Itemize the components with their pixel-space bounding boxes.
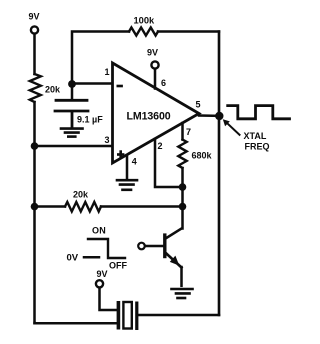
- plus sign non-inverting input: [117, 150, 124, 158]
- waveform square wave output: [228, 106, 290, 119]
- pin 4 wire: [126, 155, 129, 180]
- svg-text:9V: 9V: [147, 48, 158, 58]
- svg-text:100k: 100k: [134, 16, 156, 26]
- transistor Q1 base terminal: [138, 243, 145, 250]
- arrow XTAL FREQ pointer: [223, 119, 240, 135]
- terminal 9V top-left: [31, 26, 38, 33]
- svg-text:4: 4: [132, 156, 137, 166]
- wire base: [145, 245, 163, 248]
- node junction pin1 / capacitor: [68, 80, 76, 88]
- wire pin 3 input: [35, 145, 113, 148]
- wire emitter down: [180, 267, 183, 286]
- svg-text:OFF: OFF: [109, 261, 127, 271]
- node junction pin2 / 680k: [179, 183, 187, 191]
- svg-text:XTAL: XTAL: [244, 131, 267, 141]
- wire bottom rail to crystal: [35, 322, 118, 325]
- svg-text:5: 5: [195, 99, 200, 109]
- svg-text:0V: 0V: [67, 253, 79, 264]
- node junction 20k wire / 680k: [179, 203, 187, 211]
- svg-text:FREQ: FREQ: [245, 141, 270, 151]
- svg-text:680k: 680k: [192, 151, 213, 161]
- wire 9V switch to crystal: [100, 288, 117, 310]
- svg-text:9V: 9V: [28, 12, 39, 22]
- node output junction: [215, 112, 223, 120]
- svg-text:20k: 20k: [45, 85, 61, 95]
- waveform ON/OFF step: [88, 239, 125, 258]
- resistor 20k (left vertical): [30, 74, 41, 102]
- wire top feedback rail: [72, 32, 129, 85]
- wire from left rail to 20k horizontal resistor: [35, 205, 66, 208]
- wire from 9V terminal down to R 20k: [33, 34, 36, 74]
- wire left rail from 20k down to bottom: [33, 102, 36, 323]
- wire junction down to capacitor: [71, 84, 74, 100]
- pin 2 wire: [155, 139, 183, 187]
- terminal 9V switch: [96, 280, 103, 287]
- svg-text:6: 6: [161, 78, 166, 88]
- transistor Q1: [163, 229, 181, 268]
- minus sign inverting input: [117, 85, 123, 88]
- wire right rail: [218, 32, 221, 316]
- svg-text:20k: 20k: [73, 190, 89, 200]
- node junction left rail / pin3 wire: [31, 142, 39, 150]
- wire pin 6 supply: [154, 69, 157, 89]
- wire from 100k to right rail: [158, 30, 219, 33]
- wire 0V level dash: [84, 256, 99, 259]
- resistor 680k: [178, 140, 186, 169]
- wire crystal to right rail: [138, 314, 219, 317]
- terminal 9V op-amp supply: [151, 61, 158, 68]
- svg-text:ON: ON: [92, 226, 106, 236]
- node junction left rail / 20k wire: [31, 203, 39, 211]
- wire from 20k resistor to 680k node: [101, 205, 183, 208]
- svg-text:3: 3: [104, 135, 109, 145]
- crystal Y1: [117, 301, 139, 330]
- svg-text:2: 2: [158, 141, 163, 151]
- wire pin 5 output: [199, 114, 219, 117]
- ground pin 4: [117, 180, 137, 190]
- wire 680k down to collector: [181, 168, 184, 229]
- resistor 100k: [129, 28, 158, 36]
- pin 7 wire: [181, 123, 184, 140]
- ground emitter: [172, 289, 193, 298]
- capacitor 9.1uF: [55, 100, 88, 127]
- resistor 20k (horizontal): [65, 202, 101, 212]
- wire pin 1 input: [72, 82, 112, 85]
- op-amp U1 LM13600: [113, 63, 200, 163]
- svg-text:LM13600: LM13600: [127, 111, 171, 123]
- svg-text:7: 7: [186, 127, 191, 137]
- ground below capacitor: [61, 129, 83, 137]
- svg-text:1: 1: [104, 67, 109, 77]
- svg-text:9.1 µF: 9.1 µF: [77, 115, 103, 125]
- svg-text:9V: 9V: [97, 269, 108, 279]
